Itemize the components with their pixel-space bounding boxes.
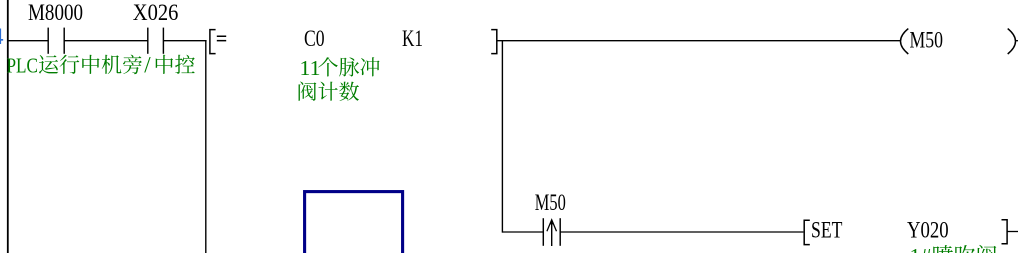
SET instruction opening bracket xyxy=(804,220,810,244)
svg-text:/: / xyxy=(144,52,151,77)
wire: compare block to coil M50 xyxy=(497,40,901,42)
svg-text:M50: M50 xyxy=(535,190,566,216)
wire: branch drop rung1 to rung2 xyxy=(501,41,503,233)
wire: coil to right edge xyxy=(1016,40,1018,42)
wire: branch drop to lower rung (off-screen) xyxy=(205,41,207,253)
svg-text:C0: C0 xyxy=(304,26,325,52)
wire: M50 contact to SET block xyxy=(560,231,803,233)
contact M8000 (NO) xyxy=(47,28,49,54)
svg-text:1#: 1# xyxy=(910,244,932,253)
wire: branch to M50 contact xyxy=(502,231,543,233)
wire: rail to M8000 contact xyxy=(8,40,48,42)
svg-text:M50: M50 xyxy=(910,28,944,54)
coil M50 xyxy=(901,29,909,54)
left power rail xyxy=(7,0,9,253)
wire: SET block to right edge xyxy=(1007,231,1018,233)
svg-text:Y020: Y020 xyxy=(907,217,949,243)
compare instruction [= C0 K1] : opening bracket xyxy=(210,30,216,54)
= operator xyxy=(217,36,226,38)
compare instruction closing bracket xyxy=(491,30,497,54)
svg-text:11: 11 xyxy=(300,56,321,80)
contact X026 (NO) xyxy=(147,28,149,54)
svg-text:M8000: M8000 xyxy=(28,0,83,26)
SET instruction closing bracket xyxy=(1002,220,1008,244)
svg-text:PLC: PLC xyxy=(7,53,39,77)
svg-text:X026: X026 xyxy=(133,0,179,26)
svg-text:SET: SET xyxy=(811,217,842,243)
wire: M8000 to X026 xyxy=(64,40,148,42)
edit cursor (blue cell selection box) xyxy=(305,192,403,253)
wire: X026 to branch point xyxy=(163,40,206,42)
svg-text:4: 4 xyxy=(0,24,4,49)
contact M50 rising edge xyxy=(542,218,544,246)
svg-text:K1: K1 xyxy=(402,26,423,52)
